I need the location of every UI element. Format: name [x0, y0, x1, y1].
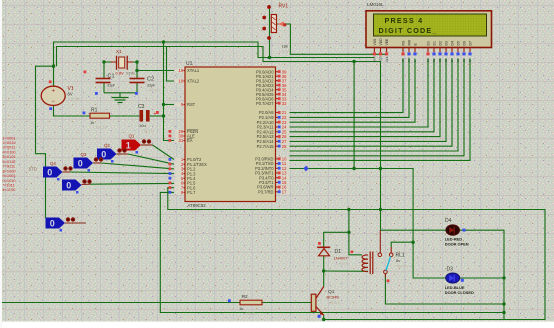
wire LED D4 to right loop — [459, 230, 505, 319]
wire C1 C2 ground bus — [104, 83, 137, 98]
LCD display LM016L — [366, 2, 492, 48]
diode D1 1N4007 — [317, 242, 349, 266]
svg-text:C1: C1 — [108, 74, 115, 80]
wire X1 left to C1 — [84, 60, 112, 78]
svg-text:Q3: Q3 — [81, 152, 87, 157]
pin 2 P1.1/T2EX — [169, 162, 208, 167]
svg-text:D3: D3 — [447, 266, 454, 272]
svg-text:<TEXT>: <TEXT> — [188, 210, 201, 214]
battery V1 6V — [41, 80, 83, 110]
svg-text:VSS: VSS — [373, 38, 377, 46]
svg-text:+: + — [51, 89, 55, 95]
wire X1 right to C2 and XTAL1 — [133, 60, 174, 78]
svg-text:<TEXT>: <TEXT> — [244, 312, 257, 316]
wire VCC rail from V1+ to LCD VSS — [54, 40, 375, 86]
wire branch to diode D1 — [324, 231, 351, 248]
pin 18 XTAL2 — [175, 79, 200, 84]
LCD pin VSS — [373, 38, 377, 62]
svg-text:P1.7: P1.7 — [187, 190, 196, 195]
svg-text:Q2: Q2 — [104, 143, 110, 148]
pin 27 P2.6/A14 — [257, 139, 290, 144]
pin 6 P1.5 — [169, 181, 197, 186]
pin 11 P3.1/TXD — [256, 161, 290, 166]
svg-text:D6: D6 — [462, 41, 466, 45]
svg-text:P3.7/RD: P3.7/RD — [258, 189, 274, 194]
svg-text:D4: D4 — [450, 41, 454, 45]
wire logicstate 5 output to P1.5 — [82, 183, 175, 184]
svg-text:RST: RST — [187, 102, 196, 107]
svg-text:D7: D7 — [468, 41, 472, 45]
svg-text:18: 18 — [179, 79, 184, 84]
svg-text:VDD: VDD — [379, 38, 383, 46]
wire relay pole pin — [379, 230, 381, 253]
node STD label — [29, 167, 37, 172]
LCD pin VDD — [379, 38, 383, 62]
svg-text:Q4: Q4 — [50, 161, 56, 166]
svg-text:<TEXT>: <TEXT> — [93, 126, 106, 130]
svg-text:<TEXT>: <TEXT> — [141, 129, 154, 133]
svg-text:X1: X1 — [116, 49, 122, 54]
LCD pin VEE — [385, 38, 389, 62]
LCD pin D1 — [432, 41, 436, 62]
svg-text:<TEXT>: <TEXT> — [395, 265, 408, 269]
logicstate Q2 — [97, 143, 127, 163]
svg-text:D0: D0 — [426, 41, 430, 45]
svg-text:10u: 10u — [139, 123, 146, 128]
pin 31 EA — [169, 138, 193, 143]
LCD pin D4 — [450, 41, 454, 62]
wire base drive R2 line — [0, 302, 311, 304]
wire riser from rail B crossing to P3 line — [353, 62, 355, 169]
svg-text:0: 0 — [78, 159, 83, 169]
wire Q1 emitter to bottom rail — [322, 315, 325, 321]
svg-text:STD: STD — [29, 167, 37, 172]
svg-text:28: 28 — [282, 144, 287, 149]
crystal X1 — [111, 49, 136, 75]
svg-text:VEE: VEE — [385, 56, 389, 62]
logicstate Q4 — [43, 161, 73, 181]
svg-text:<TEXT>: <TEXT> — [279, 50, 292, 54]
pin 28 P2.7/A15 — [257, 144, 290, 149]
svg-text:AT89C52: AT89C52 — [188, 203, 207, 208]
svg-text:32: 32 — [282, 101, 287, 106]
svg-text:31: 31 — [179, 138, 184, 143]
svg-text:D4: D4 — [445, 218, 452, 224]
logicstate 6 — [46, 217, 76, 231]
LCD pin D5 — [456, 41, 460, 62]
pin 37 P0.2/AD2 — [256, 78, 289, 83]
wire relay NC contact to right loop — [385, 274, 505, 306]
pin 5 P1.4 — [169, 176, 197, 181]
svg-text:D1: D1 — [335, 249, 342, 255]
svg-text:0: 0 — [47, 168, 52, 178]
wire P1.6 long run under MCU to right side loop — [168, 188, 545, 320]
svg-text:P2.7/A15: P2.7/A15 — [257, 144, 275, 149]
wire LCD data and control staircase to MCU — [290, 59, 471, 161]
capacitor C1 33pF — [95, 74, 117, 95]
svg-text:BC548: BC548 — [327, 294, 340, 299]
LCD pin D3 — [444, 41, 448, 62]
pin 34 P0.5/AD5 — [256, 92, 289, 97]
svg-text:1k: 1k — [90, 120, 94, 125]
svg-text:33pF: 33pF — [107, 84, 116, 88]
capacitor C2 33pF — [130, 77, 161, 95]
svg-text:XTAL2: XTAL2 — [187, 79, 200, 84]
keypad code legend — [3, 135, 17, 192]
LCD pin RS — [401, 40, 405, 62]
wire D1 Q1 collector relay coil bottom bus — [322, 256, 368, 287]
pin 10 P3.0/RXD — [255, 157, 289, 162]
svg-text:DOOR OPEN: DOOR OPEN — [445, 241, 469, 246]
node probe diamond on P3.2 net — [303, 166, 308, 172]
svg-text:1N4007: 1N4007 — [334, 256, 349, 261]
svg-text:U1: U1 — [186, 61, 193, 67]
svg-text:<TEXT>: <TEXT> — [328, 301, 341, 305]
wire P1.7 long run to bottom rail — [160, 192, 505, 314]
svg-text:0: 0 — [50, 219, 55, 229]
pin 25 P2.4/A12 — [257, 129, 290, 134]
svg-text:6v: 6v — [396, 258, 400, 263]
pin 32 P0.7/AD7 — [256, 101, 289, 106]
wire riser to XTAL2 — [167, 47, 175, 82]
svg-text:<TEXT>: <TEXT> — [104, 88, 117, 92]
svg-text:1k: 1k — [239, 306, 243, 311]
LCD pin D2 — [438, 41, 442, 62]
pin 35 P0.4/AD4 — [256, 87, 289, 92]
pin 3 P1.2 — [169, 167, 197, 172]
svg-text:D5: D5 — [456, 41, 460, 45]
svg-text:VSS: VSS — [373, 56, 377, 62]
wire Q1 output to P1.0 — [141, 145, 174, 160]
pin 7 P1.6 — [169, 185, 197, 190]
pin 22 P2.1/A9 — [259, 115, 289, 120]
pin 19 XTAL1 — [175, 68, 200, 73]
svg-text:<TEXT>: <TEXT> — [68, 97, 84, 102]
pin 38 P0.1/AD1 — [256, 74, 289, 79]
svg-text:R2: R2 — [242, 294, 248, 300]
svg-text:33pF: 33pF — [147, 84, 156, 88]
pin 16 P3.6/WR — [257, 185, 289, 190]
pin 9 RST — [175, 102, 195, 107]
pin 15 P3.5/T1 — [259, 180, 289, 185]
svg-text:0.8V: 0.8V — [116, 70, 125, 75]
LCD pin RW — [407, 39, 411, 62]
svg-text:17: 17 — [282, 189, 287, 194]
svg-text:<TEXT>: <TEXT> — [336, 262, 349, 266]
LCD pin D6 — [462, 41, 466, 62]
pin 39 P0.0/AD0 — [256, 69, 289, 74]
wire LED D3 right — [460, 277, 504, 279]
pin 17 P3.7/RD — [258, 189, 289, 194]
wire second top rail to LCD VDD — [57, 47, 381, 67]
svg-text:19: 19 — [179, 68, 184, 73]
LED D3 LED-BLUE DOOR CLOSED — [445, 266, 474, 295]
wire RV1 wiper to LCD VEE — [277, 24, 387, 54]
logicstate Q1 — [122, 134, 152, 154]
svg-text:RS: RS — [401, 40, 405, 45]
svg-text:D2: D2 — [438, 41, 442, 45]
wire RV1 branch — [269, 5, 271, 58]
wire P3.2 to LED D3 with junctions — [290, 167, 446, 278]
pin 23 P2.2/A10 — [257, 120, 290, 125]
pin 12 P3.2/INT0 — [255, 166, 289, 171]
LCD pin D7 — [468, 41, 472, 62]
svg-text:6V: 6V — [68, 92, 73, 97]
wire riser rail to RST and EA — [162, 42, 174, 141]
svg-text:R1: R1 — [91, 108, 98, 114]
wire relay contact to LED D4 — [391, 242, 413, 247]
svg-text:D1: D1 — [432, 41, 436, 45]
LED D4 LED-RED DOOR OPEN — [445, 218, 469, 247]
pin 26 P2.5/A13 — [257, 134, 290, 139]
svg-text:Q1: Q1 — [129, 134, 135, 139]
svg-text:XTAL1: XTAL1 — [187, 68, 200, 73]
relay RL1 6V — [351, 247, 409, 282]
wire RST pin 9 — [164, 104, 175, 106]
resistor R2 1k — [228, 294, 262, 316]
ground — [112, 98, 129, 103]
wire Q4 output to P1.3 — [63, 172, 175, 174]
svg-text:VDD: VDD — [379, 56, 383, 62]
logicstate Q3 — [74, 152, 104, 172]
pin 33 P0.6/AD6 — [256, 96, 289, 101]
svg-text:STAL: STAL — [126, 70, 136, 75]
svg-text:C3: C3 — [138, 104, 145, 110]
pin 29 PSEN — [169, 129, 199, 134]
svg-text:C2: C2 — [147, 77, 154, 83]
pin 21 P2.0/A8 — [259, 110, 289, 115]
pin 36 P0.3/AD3 — [256, 83, 289, 88]
svg-text:<TEXT>: <TEXT> — [147, 89, 160, 93]
svg-text:RV1: RV1 — [279, 4, 289, 10]
svg-text:DOOR CLOSED: DOOR CLOSED — [445, 290, 474, 295]
LCD pin E — [413, 43, 417, 63]
wire logicstate 6 output stub — [65, 222, 86, 224]
svg-text:VEE: VEE — [385, 38, 389, 46]
svg-text:0: 0 — [66, 181, 71, 191]
svg-text:D3: D3 — [444, 41, 448, 45]
wire VCC drop to relay coil — [349, 210, 362, 255]
logicstate 5 — [62, 179, 92, 193]
svg-text:PRESS 4: PRESS 4 — [385, 16, 424, 25]
svg-text:P0.7/AD7: P0.7/AD7 — [256, 101, 274, 106]
pin 13 P3.3/INT1 — [255, 171, 289, 176]
svg-text:EA: EA — [187, 138, 193, 143]
transistor Q1 BC548 — [311, 287, 341, 318]
LCD pin D0 — [426, 41, 430, 62]
wire left branch from V1 node down to logicstate column — [36, 65, 56, 219]
microcontroller U1 AT89C52 — [185, 61, 276, 214]
svg-text:1: 1 — [126, 141, 131, 151]
wire R1 to C3 — [110, 115, 140, 117]
pin 8 P1.7 — [169, 190, 197, 195]
svg-text:10k: 10k — [282, 44, 288, 49]
svg-text:#=1100: #=1100 — [3, 187, 17, 192]
wire C3 to RST node — [150, 114, 165, 117]
capacitor C3 10u — [138, 104, 159, 133]
svg-text:RW: RW — [407, 39, 411, 45]
potentiometer RV1 10k — [262, 4, 292, 55]
pin 30 ALE — [169, 134, 196, 139]
pin 1 P1.0/T2 — [169, 157, 203, 162]
pin 14 P3.4/T0 — [259, 175, 289, 180]
resistor R1 1k — [83, 108, 110, 131]
pin 24 P2.3/A11 — [257, 125, 289, 130]
pin 4 P1.3 — [169, 171, 197, 176]
wire Q3 output to P1.2 — [93, 163, 174, 169]
wire LCD VDD down then right to LED D4 — [379, 62, 446, 231]
wire Q2 output to P1.1 — [117, 154, 175, 164]
svg-text:−: − — [51, 99, 55, 105]
svg-text:DIGIT CODE_: DIGIT CODE_ — [379, 26, 438, 35]
wire V1- to R1 — [54, 105, 91, 116]
